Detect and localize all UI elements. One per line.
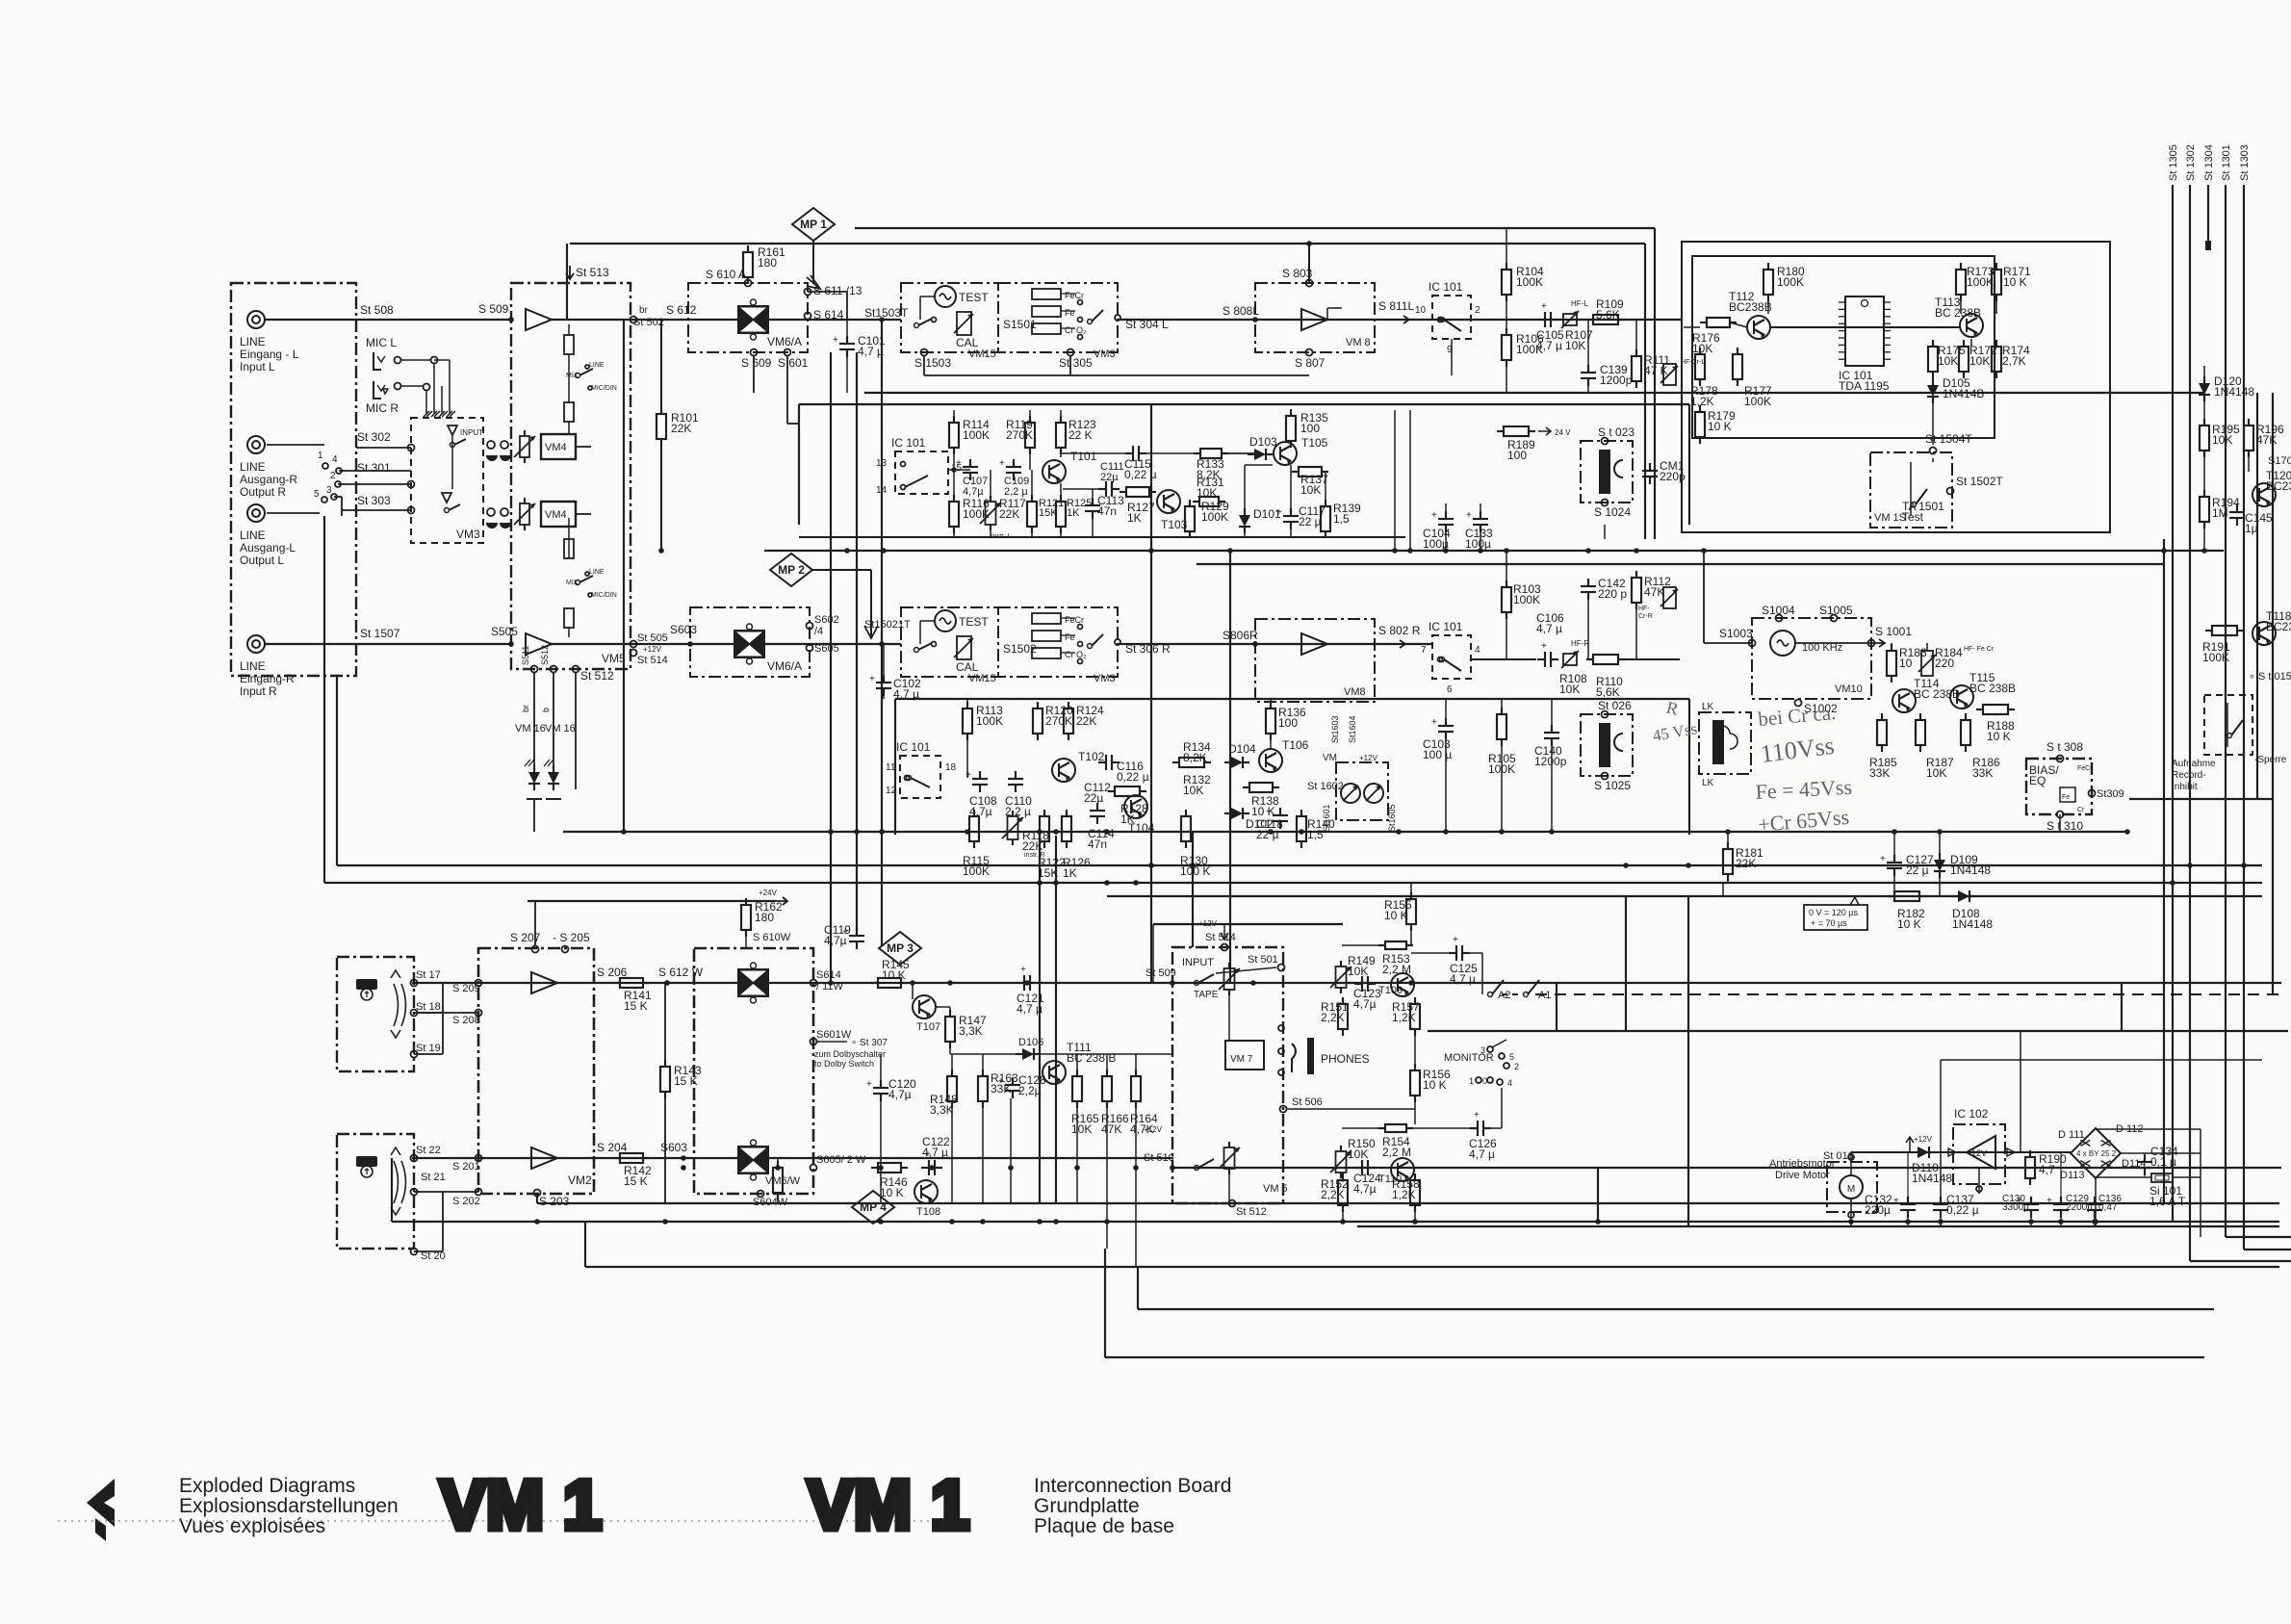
svg-text:10K: 10K (1300, 483, 1321, 497)
svg-text:VM4: VM4 (545, 509, 567, 521)
svg-text:22K: 22K (999, 507, 1019, 521)
svg-text:LINE: LINE (240, 528, 266, 542)
svg-text:St 501: St 501 (1248, 954, 1278, 966)
svg-text:+: + (2223, 503, 2228, 514)
svg-text:St15021T: St15021T (864, 619, 911, 631)
svg-text:10K: 10K (1559, 683, 1580, 696)
svg-text:4,7 µ: 4,7 µ (893, 687, 919, 701)
svg-text:Cr: Cr (2077, 807, 2085, 813)
svg-text:4,7 µ: 4,7 µ (1536, 339, 1562, 352)
svg-text:T107: T107 (916, 1021, 940, 1033)
svg-text:4,7µ: 4,7µ (1353, 997, 1377, 1011)
svg-text:St 301: St 301 (357, 461, 391, 475)
svg-text:St 502: St 502 (633, 317, 664, 328)
svg-text:Cr O₂: Cr O₂ (1065, 650, 1087, 659)
svg-text:S605/ 2 W: S605/ 2 W (816, 1154, 866, 1166)
svg-text:100K: 100K (963, 428, 990, 442)
svg-text:S 201: S 201 (452, 1161, 480, 1173)
svg-text:4,7µ: 4,7µ (824, 934, 847, 947)
svg-text:S 208: S 208 (452, 1015, 480, 1026)
svg-text:S505: S505 (491, 625, 518, 638)
svg-text:VM6/A: VM6/A (767, 659, 802, 673)
svg-text:LINE: LINE (240, 335, 266, 348)
svg-text:S 610 A: S 610 A (706, 268, 746, 281)
svg-text:22µ: 22µ (1100, 472, 1119, 483)
svg-text:D104: D104 (1228, 742, 1256, 756)
svg-text:CAL: CAL (956, 336, 979, 349)
svg-text:+: + (1541, 641, 1547, 652)
svg-text:2,2 M: 2,2 M (1382, 1146, 1411, 1159)
svg-text:S 612 W: S 612 W (658, 966, 704, 979)
svg-text:4,7 µ: 4,7 µ (1450, 972, 1476, 986)
svg-text:St 506: St 506 (1292, 1096, 1323, 1108)
svg-text:T108: T108 (916, 1206, 940, 1218)
svg-text:Exploded Diagrams: Exploded Diagrams (179, 1475, 355, 1497)
svg-text:Vues exploisées: Vues exploisées (179, 1515, 325, 1537)
svg-text:St 22: St 22 (416, 1145, 441, 1156)
svg-text:br: br (521, 705, 530, 712)
svg-text:St 508: St 508 (360, 303, 394, 317)
svg-text:VM 5: VM 5 (1263, 1183, 1288, 1195)
svg-text:1N414B: 1N414B (1943, 387, 1984, 400)
svg-text:S 206: S 206 (597, 966, 628, 979)
svg-text:1,6 A T: 1,6 A T (2149, 1195, 2186, 1208)
svg-text:HF- Fe Cr: HF- Fe Cr (1964, 646, 1995, 653)
svg-text:HF-: HF- (1638, 606, 1650, 612)
svg-text:10: 10 (1899, 657, 1913, 670)
svg-text:7: 7 (1421, 645, 1427, 656)
svg-text:VM4: VM4 (545, 442, 567, 453)
svg-text:VM5: VM5 (602, 652, 626, 665)
svg-text:2: 2 (1475, 305, 1480, 316)
svg-text:S512: S512 (540, 645, 550, 665)
svg-text:Output R: Output R (240, 485, 286, 499)
svg-text:S 808L: S 808L (1223, 304, 1259, 318)
svg-text:VM6/W: VM6/W (765, 1175, 801, 1187)
svg-text:VM10: VM10 (1835, 683, 1863, 695)
svg-text:Inhibit: Inhibit (2172, 782, 2198, 792)
svg-text:S 1025: S 1025 (1594, 779, 1631, 792)
svg-text:5: 5 (1509, 1052, 1514, 1062)
svg-text:St 512: St 512 (580, 669, 614, 683)
svg-text:T103: T103 (1161, 518, 1188, 531)
svg-text:4,7 µ: 4,7 µ (1469, 1147, 1495, 1161)
svg-text:St 505: St 505 (637, 632, 668, 644)
svg-text:0,22 µ: 0,22 µ (1124, 468, 1157, 481)
svg-text:1,2K: 1,2K (1392, 1188, 1416, 1201)
svg-text:A1: A1 (1538, 990, 1551, 1001)
svg-text:22K: 22K (1736, 857, 1756, 870)
svg-text:47 K: 47 K (1644, 364, 1668, 377)
svg-text:EQ: EQ (2029, 774, 2046, 787)
svg-text:100K: 100K (963, 864, 990, 878)
svg-text:TEST: TEST (959, 291, 989, 304)
svg-text:47K: 47K (1101, 1122, 1121, 1136)
svg-text:3: 3 (1480, 1045, 1485, 1055)
svg-text:+: + (2046, 1196, 2052, 1206)
svg-text:0,47: 0,47 (2098, 1202, 2118, 1213)
svg-text:100µ: 100µ (1465, 537, 1491, 551)
svg-text:VM 1: VM 1 (808, 1467, 969, 1544)
svg-text:Fe: Fe (1065, 308, 1075, 318)
svg-text:St 19: St 19 (416, 1043, 441, 1054)
svg-text:INPUT: INPUT (460, 428, 483, 437)
svg-text:MP 3: MP 3 (887, 941, 914, 955)
svg-text:1,5: 1,5 (1333, 512, 1350, 526)
svg-text:S170: S170 (2268, 455, 2291, 467)
svg-text:8,2K: 8,2K (1183, 751, 1207, 764)
svg-text:Cr O₂: Cr O₂ (1065, 325, 1087, 335)
svg-text:CAL: CAL (956, 660, 979, 674)
svg-text:0,22 µ: 0,22 µ (1946, 1203, 1979, 1217)
svg-text:33K: 33K (1972, 766, 1993, 780)
svg-text:10 K: 10 K (882, 968, 906, 982)
svg-text:3300µ: 3300µ (2002, 1202, 2029, 1213)
svg-text:S601W: S601W (816, 1029, 852, 1041)
svg-text:Test: Test (1902, 510, 1924, 524)
svg-text:St 1301: St 1301 (2221, 144, 2232, 181)
svg-text:100K: 100K (1744, 395, 1771, 408)
svg-text:St 1602: St 1602 (1307, 781, 1344, 792)
svg-text:+: + (1466, 510, 1472, 521)
svg-text:MIC/DIN: MIC/DIN (591, 385, 617, 392)
svg-text:+12V: +12V (1359, 754, 1378, 762)
svg-text:2,2µ: 2,2µ (1018, 1084, 1042, 1097)
svg-text:-Sperre: -Sperre (2254, 755, 2287, 765)
svg-text:2,2 µ: 2,2 µ (1004, 486, 1028, 498)
svg-text:Interconnection Board: Interconnection Board (1034, 1475, 1231, 1497)
svg-text:Fe: Fe (2062, 794, 2070, 801)
svg-text:S806R: S806R (1223, 629, 1258, 642)
svg-text:1K: 1K (1063, 866, 1077, 880)
svg-text:4,7µ: 4,7µ (1353, 1182, 1377, 1196)
svg-text:S 203: S 203 (539, 1195, 570, 1208)
svg-text:VM3: VM3 (1094, 348, 1116, 360)
svg-text:St 026: St 026 (1598, 699, 1632, 712)
svg-text:S614: S614 (816, 969, 841, 981)
svg-text:1K: 1K (1127, 511, 1142, 525)
svg-text:2: 2 (1514, 1062, 1519, 1071)
svg-text:S602: S602 (814, 614, 839, 626)
svg-text:T109: T109 (1378, 985, 1403, 996)
svg-text:MP 1: MP 1 (800, 218, 827, 231)
svg-text:1µ: 1µ (2245, 522, 2258, 535)
svg-text:BC238B: BC238B (1729, 300, 1772, 314)
svg-text:LINE: LINE (589, 362, 605, 369)
svg-text:5: 5 (314, 489, 320, 500)
svg-text:- S 205: - S 205 (553, 931, 590, 944)
svg-text:St 1302: St 1302 (2185, 144, 2197, 181)
svg-text:Explosionsdarstellungen: Explosionsdarstellungen (179, 1495, 399, 1517)
svg-text:+: + (1541, 301, 1547, 312)
svg-text:+: + (965, 770, 971, 781)
svg-text:14: 14 (876, 485, 888, 496)
svg-text:Plaque de base: Plaque de base (1034, 1515, 1174, 1537)
svg-text:St 1507: St 1507 (360, 627, 400, 640)
svg-text:BC23: BC23 (2266, 620, 2291, 633)
svg-text:1N4148: 1N4148 (1950, 864, 1991, 877)
svg-text:10 K: 10 K (1897, 917, 1921, 931)
svg-text:10K: 10K (1969, 354, 1990, 368)
svg-text:10: 10 (1415, 305, 1427, 316)
svg-text:10K: 10K (1348, 1147, 1368, 1161)
svg-text:47K: 47K (2256, 433, 2277, 447)
svg-text:22 µ: 22 µ (1256, 828, 1279, 841)
svg-text:St 1303: St 1303 (2239, 144, 2251, 181)
svg-text:10K: 10K (1926, 766, 1946, 780)
svg-text:+12V: +12V (1198, 919, 1218, 928)
svg-text:St 17: St 17 (416, 969, 441, 981)
svg-text:220µ: 220µ (1865, 1203, 1891, 1217)
svg-text:Input R: Input R (240, 684, 277, 698)
svg-text:Eingang-R: Eingang-R (240, 672, 295, 685)
svg-text:100K: 100K (976, 714, 1003, 728)
svg-text:D106: D106 (1018, 1037, 1043, 1048)
svg-text:FeCr: FeCr (2077, 765, 2093, 772)
svg-text:D103: D103 (1249, 435, 1277, 449)
svg-text:100: 100 (1300, 422, 1320, 435)
svg-text:10 K: 10 K (1423, 1078, 1447, 1092)
svg-text:St 510: St 510 (1144, 1152, 1174, 1164)
svg-text:VM6/A: VM6/A (767, 335, 802, 348)
svg-text:S 811L: S 811L (1378, 299, 1414, 313)
svg-text:270K: 270K (1006, 428, 1033, 442)
svg-text:S 509: S 509 (478, 302, 509, 316)
svg-text:100K: 100K (1777, 275, 1804, 289)
svg-text:T104: T104 (1128, 821, 1155, 835)
svg-text:5,6K: 5,6K (1596, 308, 1620, 322)
svg-text:Eingang - L: Eingang - L (240, 348, 299, 361)
svg-text:10K: 10K (1348, 965, 1368, 978)
svg-text:St 306 R: St 306 R (1125, 642, 1171, 656)
svg-text:S 612: S 612 (666, 303, 697, 317)
svg-text:BC 238B: BC 238B (1935, 306, 1981, 320)
svg-text:47n: 47n (1097, 504, 1117, 518)
svg-text:+24V: +24V (759, 889, 778, 897)
svg-text:220: 220 (1935, 657, 1954, 670)
svg-text:LK: LK (1702, 702, 1714, 712)
svg-text:0: 0 (1482, 1076, 1487, 1086)
svg-text:St 514: St 514 (637, 655, 668, 666)
svg-text:+: + (1266, 807, 1272, 817)
svg-text:220 p: 220 p (1598, 587, 1627, 601)
svg-text:IC 102: IC 102 (1954, 1107, 1989, 1121)
svg-text:T101: T101 (1070, 450, 1097, 463)
svg-text:100K: 100K (1201, 510, 1228, 524)
svg-text:MONITOR: MONITOR (1444, 1052, 1494, 1064)
svg-text:10K: 10K (1565, 339, 1585, 352)
svg-text:St 18: St 18 (416, 1001, 441, 1013)
svg-text:zum Dolbyschalter: zum Dolbyschalter (814, 1049, 886, 1059)
svg-text:T102: T102 (1078, 750, 1105, 763)
svg-text:LINE: LINE (589, 569, 605, 576)
svg-text:1200p: 1200p (1600, 374, 1633, 387)
svg-text:St 303: St 303 (357, 494, 391, 507)
svg-text:33K: 33K (1869, 766, 1890, 780)
svg-text:270K: 270K (1045, 714, 1072, 728)
svg-text:13: 13 (876, 458, 888, 469)
svg-text:BC 238 B: BC 238 B (1067, 1051, 1116, 1065)
svg-text:1K: 1K (1067, 507, 1080, 519)
svg-text:10 K: 10 K (1251, 805, 1275, 818)
svg-text:22K: 22K (1076, 714, 1096, 728)
svg-text:Cr-R: Cr-R (1638, 613, 1653, 620)
svg-text:HF-R: HF-R (1571, 639, 1589, 648)
svg-text:1,2K: 1,2K (1690, 395, 1714, 408)
svg-text:VM 8: VM 8 (1346, 337, 1371, 348)
svg-text:S 610W: S 610W (753, 932, 791, 943)
svg-text:2,2K: 2,2K (1321, 1011, 1345, 1024)
svg-text:Output L: Output L (240, 554, 284, 567)
svg-text:+: + (869, 674, 875, 684)
svg-text:100 K: 100 K (1180, 864, 1210, 878)
svg-text:S 611 /13: S 611 /13 (813, 284, 862, 297)
svg-text:4,7µ: 4,7µ (888, 1088, 912, 1101)
svg-text:180: 180 (755, 911, 774, 924)
svg-text:15 K: 15 K (624, 999, 648, 1013)
svg-text:VM15: VM15 (968, 348, 996, 360)
svg-text:D113: D113 (2060, 1170, 2084, 1181)
svg-text:HF-L: HF-L (1571, 299, 1588, 308)
svg-text:0,22 µ: 0,22 µ (1117, 770, 1149, 784)
svg-text:10 K: 10 K (880, 1186, 904, 1199)
svg-text:b: b (541, 708, 551, 712)
svg-text:VM: VM (1323, 753, 1337, 763)
svg-text:St309: St309 (2097, 788, 2124, 800)
svg-text:10 K: 10 K (1384, 909, 1408, 922)
svg-text:M: M (1847, 1184, 1855, 1195)
svg-text:∘ S t 015: ∘ S t 015 (2249, 671, 2291, 683)
svg-text:Fe: Fe (1065, 632, 1075, 642)
svg-text:TEST: TEST (959, 615, 989, 629)
svg-text:S605: S605 (814, 643, 839, 655)
svg-text:MIC R: MIC R (366, 401, 399, 415)
svg-text:S 802 R: S 802 R (1378, 624, 1421, 637)
svg-text:St1604: St1604 (1348, 715, 1357, 743)
svg-text:S 601: S 601 (778, 356, 809, 370)
svg-text:100: 100 (1278, 716, 1298, 730)
svg-text:St1503T: St1503T (864, 306, 909, 320)
svg-text:10 K: 10 K (1708, 420, 1732, 433)
svg-text:S 204: S 204 (597, 1141, 628, 1154)
svg-text:MP 2: MP 2 (778, 563, 805, 577)
svg-text:1: 1 (318, 451, 323, 461)
svg-text:18: 18 (945, 762, 957, 773)
svg-text:St1601: St1601 (1322, 804, 1331, 832)
svg-text:1200p: 1200p (1534, 755, 1567, 768)
svg-text:S604W: S604W (753, 1197, 788, 1208)
svg-text:1,2K: 1,2K (1392, 1011, 1416, 1024)
svg-text:100: 100 (1507, 449, 1527, 462)
svg-text:Ausgang-R: Ausgang-R (240, 473, 297, 486)
svg-text:S603: S603 (660, 1141, 687, 1154)
svg-text:2,2K: 2,2K (1321, 1188, 1345, 1201)
svg-text:TDA 1195: TDA 1195 (1839, 379, 1890, 393)
svg-text:S t 308: S t 308 (2046, 740, 2083, 754)
svg-text:BC 238B: BC 238B (1969, 682, 2016, 695)
svg-text:Grundplatte: Grundplatte (1034, 1495, 1140, 1517)
svg-text:MIC/DIN: MIC/DIN (591, 592, 617, 599)
svg-text:10K: 10K (2212, 433, 2232, 447)
svg-text:2: 2 (330, 471, 336, 481)
svg-text:IC 101: IC 101 (1429, 280, 1463, 294)
svg-text:4,7µ: 4,7µ (963, 486, 984, 498)
svg-text:S511: S511 (521, 646, 530, 665)
svg-text:S1003: S1003 (1719, 627, 1753, 640)
svg-text:+: + (1474, 1110, 1480, 1121)
svg-text:4,7: 4,7 (2039, 1163, 2055, 1176)
svg-text:22K: 22K (671, 422, 691, 435)
svg-text:S 202: S 202 (452, 1196, 480, 1207)
svg-text:3,3K: 3,3K (930, 1103, 954, 1117)
svg-text:S 1024: S 1024 (1594, 505, 1631, 519)
svg-text:S 803: S 803 (1282, 267, 1313, 280)
svg-text:INPUT: INPUT (1182, 957, 1214, 968)
svg-text:to Dolby Switch: to Dolby Switch (814, 1059, 874, 1069)
svg-text:+: + (1431, 510, 1437, 521)
svg-text:6: 6 (1447, 684, 1453, 695)
svg-text:5,6K: 5,6K (1596, 685, 1620, 699)
svg-text:47n: 47n (1088, 838, 1107, 851)
svg-text:4,7 µ: 4,7 µ (858, 345, 884, 358)
svg-text:3: 3 (326, 485, 332, 496)
svg-text:12: 12 (886, 786, 897, 796)
svg-text:100K: 100K (1513, 593, 1540, 606)
svg-text:S 614: S 614 (813, 308, 844, 322)
svg-text:22 K: 22 K (1068, 428, 1093, 442)
svg-text:12V: 12V (1971, 1148, 1987, 1158)
svg-text:10 K: 10 K (1987, 730, 2011, 743)
svg-text:4,7 µ: 4,7 µ (922, 1146, 948, 1159)
svg-text:1N4148: 1N4148 (1912, 1172, 1952, 1185)
svg-text:St 304 L: St 304 L (1125, 318, 1169, 331)
svg-text:VM3: VM3 (456, 528, 480, 541)
svg-text:VM 16: VM 16 (515, 723, 546, 735)
svg-text:+12V: +12V (1914, 1135, 1933, 1144)
svg-text:+: + (1880, 854, 1886, 864)
svg-text:IC 101: IC 101 (891, 436, 926, 450)
svg-text:15K: 15K (1038, 866, 1058, 880)
svg-text:180: 180 (758, 256, 777, 270)
svg-text:1N4148: 1N4148 (2214, 385, 2254, 399)
svg-text:+: + (999, 458, 1005, 469)
svg-text:22µ: 22µ (1084, 791, 1103, 805)
svg-text:MP 4: MP 4 (860, 1200, 887, 1214)
svg-text:Aufnahme: Aufnahme (2172, 759, 2216, 769)
svg-text:+12V: +12V (1144, 1125, 1163, 1134)
svg-text:T105: T105 (1301, 436, 1328, 450)
svg-text:+: + (1020, 965, 1026, 975)
svg-text:St 1304: St 1304 (2203, 144, 2215, 181)
svg-text:4 x BY 25 2: 4 x BY 25 2 (2076, 1149, 2117, 1158)
svg-text:MIC L: MIC L (366, 336, 397, 349)
svg-text:VM8: VM8 (1344, 686, 1366, 698)
svg-text:1N4148: 1N4148 (1952, 917, 1993, 931)
svg-text:S603: S603 (670, 623, 697, 636)
svg-text:4: 4 (1475, 645, 1480, 656)
svg-text:47K: 47K (1644, 585, 1664, 599)
svg-text:Record-: Record- (2172, 770, 2206, 781)
svg-text:S 1503: S 1503 (914, 356, 951, 370)
svg-text:Drive Motor: Drive Motor (1775, 1170, 1830, 1181)
svg-text:+: + (866, 1079, 872, 1090)
svg-text:4: 4 (1507, 1078, 1512, 1088)
svg-text:11: 11 (886, 762, 896, 773)
svg-text:D 111: D 111 (2058, 1129, 2085, 1141)
svg-text:100K: 100K (1967, 275, 1994, 289)
svg-text:10 K: 10 K (2003, 275, 2027, 289)
svg-text:St1603: St1603 (1330, 715, 1340, 743)
